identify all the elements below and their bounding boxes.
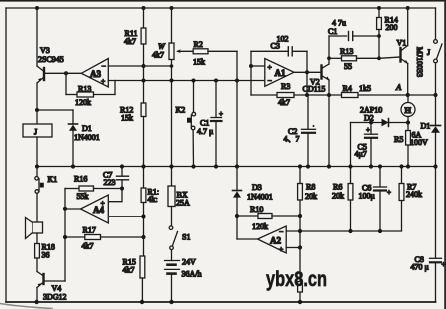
wire A3 output to node xyxy=(66,72,81,74)
node D2 / C5 junction xyxy=(369,121,373,125)
svg-text:20k: 20k xyxy=(332,192,344,201)
resistor R15 4k7 xyxy=(123,256,145,302)
node A line right end xyxy=(433,93,437,97)
node A3 minus / W column xyxy=(170,64,174,68)
diode D2 2AP10 xyxy=(351,106,409,127)
svg-text:V3: V3 xyxy=(40,46,50,55)
wire C7 junction down to A4 plus input xyxy=(108,189,122,202)
node top rail junctions xyxy=(35,6,410,10)
resistor R18 36 xyxy=(35,243,55,272)
node A1 output / feedback xyxy=(305,70,309,74)
svg-text:D1: D1 xyxy=(421,122,431,131)
resistor R5 xyxy=(394,123,410,167)
op-amp A2 xyxy=(258,226,287,254)
resistor R2 15k xyxy=(193,40,237,81)
wire V3 collector drop xyxy=(36,8,38,66)
resistor R7 240k xyxy=(399,167,422,201)
svg-text:15k: 15k xyxy=(193,58,205,67)
node A4 output xyxy=(63,207,67,211)
node H / D2 junction xyxy=(406,120,410,124)
node R6 bottom xyxy=(348,229,352,233)
node A1 plus junction xyxy=(249,64,253,68)
svg-text:C3: C3 xyxy=(271,42,280,51)
node base of V3 / A3 output xyxy=(64,71,68,75)
node R17 right xyxy=(141,235,145,239)
svg-text:A3: A3 xyxy=(90,69,101,79)
svg-text:K1: K1 xyxy=(48,175,58,184)
diode D1 6A 100V xyxy=(410,122,441,258)
svg-text:D3: D3 xyxy=(252,183,262,192)
resistor R1 4k (vertical, above R15) xyxy=(141,167,159,257)
resistor R3 4k7 xyxy=(251,82,342,107)
resistor R9 (under watermark) xyxy=(298,282,303,293)
svg-text:+: + xyxy=(387,189,391,197)
wire V2 emitter column xyxy=(328,95,330,167)
bus1 to A1: vertical feedback column x=251 xyxy=(250,51,252,95)
svg-text:4k7: 4k7 xyxy=(124,37,136,46)
resistor R13 55 xyxy=(329,47,379,71)
wire bus1 (A3 plus input rail) xyxy=(108,80,264,82)
potentiometer W 4k7 xyxy=(152,8,193,167)
relay coil J xyxy=(23,124,52,167)
node V2 collector / R13 junction xyxy=(327,56,331,60)
resistor R14 200 xyxy=(377,8,398,58)
svg-text:55: 55 xyxy=(344,62,352,71)
svg-text:+: + xyxy=(101,77,105,86)
svg-text:24V: 24V xyxy=(182,258,196,267)
svg-text:20k: 20k xyxy=(305,192,317,201)
capacitor C8 470u xyxy=(411,255,446,302)
resistor R4 1k5 xyxy=(342,84,436,98)
node V2 emitter junction xyxy=(327,93,331,97)
svg-text:4k7: 4k7 xyxy=(123,266,135,275)
wire A2 output lead xyxy=(237,238,258,240)
svg-text:−: − xyxy=(102,62,106,71)
node V3 emitter / D1 branch xyxy=(35,108,39,112)
svg-text:J: J xyxy=(34,128,37,137)
wire top rail xyxy=(6,7,436,9)
wire V3 emitter drop xyxy=(36,83,38,124)
wire bus2 (middle rail) xyxy=(37,166,436,168)
node R10 right on R8 column xyxy=(298,214,302,218)
svg-text:+: + xyxy=(366,126,370,134)
resistor R6 20k xyxy=(332,167,353,232)
svg-text:R16: R16 xyxy=(74,175,87,184)
resistor R13 120k xyxy=(66,81,115,108)
node R14 / C1 junction xyxy=(377,34,381,38)
svg-text:R4: R4 xyxy=(343,84,352,93)
svg-text:−: − xyxy=(279,227,283,236)
svg-text:A: A xyxy=(395,82,402,92)
svg-text:R6: R6 xyxy=(333,183,342,192)
svg-text:25A: 25A xyxy=(176,199,190,208)
svg-text:+: + xyxy=(268,63,272,72)
wire A1 output to V2 base xyxy=(294,71,322,73)
svg-text:1N4001: 1N4001 xyxy=(247,193,273,202)
resistor R17 4k7 xyxy=(65,226,144,251)
svg-text:+: + xyxy=(279,245,283,254)
wire A2 minus line to R7 column xyxy=(286,201,401,232)
resistor R11 4k7 xyxy=(124,8,146,81)
switch K2 xyxy=(176,81,196,167)
wire left rail xyxy=(5,8,7,302)
node A2 minus crossing xyxy=(298,229,302,233)
svg-text:H: H xyxy=(405,105,412,115)
svg-text:−: − xyxy=(268,76,272,85)
op-amp A4 xyxy=(81,195,109,223)
node R17 left xyxy=(63,235,67,239)
node R14 / R13 / V1 base junction xyxy=(377,56,381,60)
capacitor C1 4.7u (top) xyxy=(328,19,379,41)
svg-text:120k: 120k xyxy=(252,222,268,231)
svg-text:R13: R13 xyxy=(78,85,91,94)
capacitor C3 102 xyxy=(251,35,307,96)
switch K1 xyxy=(35,167,57,223)
svg-text:+: + xyxy=(101,199,105,208)
wire A4 output to column xyxy=(65,208,81,210)
svg-text:R13: R13 xyxy=(340,47,353,56)
svg-text:R17: R17 xyxy=(83,226,96,235)
svg-text:4k7: 4k7 xyxy=(152,51,164,60)
svg-text:55k: 55k xyxy=(77,192,89,201)
node R3/C2 junction xyxy=(305,93,309,97)
svg-text:CD115: CD115 xyxy=(303,85,326,94)
svg-text:4k7: 4k7 xyxy=(278,98,290,107)
svg-text:36A/h: 36A/h xyxy=(182,270,202,279)
svg-text:100V: 100V xyxy=(410,138,428,147)
svg-text:D1: D1 xyxy=(82,124,92,133)
svg-text:J: J xyxy=(427,48,430,57)
svg-text:1k5: 1k5 xyxy=(359,84,371,93)
svg-text:+: + xyxy=(219,110,223,118)
switch J (relay contact) xyxy=(427,8,442,125)
transistor V4 3DG12 xyxy=(37,272,67,303)
wire feedback drop xyxy=(65,73,67,94)
svg-text:240k: 240k xyxy=(406,190,422,199)
svg-text:R2: R2 xyxy=(194,40,203,49)
svg-text:15k: 15k xyxy=(121,114,133,123)
node D3 / R10 xyxy=(235,214,239,218)
svg-text:R8: R8 xyxy=(306,183,315,192)
capacitor C5 4u7 xyxy=(355,123,378,167)
svg-text:4.7 μ: 4.7 μ xyxy=(197,127,213,136)
wire A1 plus lead xyxy=(251,65,265,67)
svg-text:C1: C1 xyxy=(328,27,337,36)
node V4 emitter ground xyxy=(34,300,38,304)
capacitor C6 100u xyxy=(359,167,392,232)
wire to D1 xyxy=(37,109,73,111)
node A2 plus on R8 column xyxy=(298,245,302,249)
capacitor C1 4.7u xyxy=(197,81,223,167)
svg-text:4μ7: 4μ7 xyxy=(355,150,367,159)
wire A4 feedback column xyxy=(64,189,66,282)
svg-text:3DG12: 3DG12 xyxy=(43,293,67,302)
wire D2 anode down to bus2 xyxy=(350,123,352,167)
transistor V3 xyxy=(37,46,66,83)
battery 24V 36A/h xyxy=(165,250,202,302)
svg-text:R5: R5 xyxy=(394,135,403,144)
resistor R8 20k xyxy=(298,167,317,303)
op-amp A1 xyxy=(265,59,294,87)
switch S1 xyxy=(169,207,190,250)
frame right edge artifact xyxy=(444,0,446,309)
node C6 bottom xyxy=(378,229,382,233)
svg-text:36: 36 xyxy=(42,251,50,260)
svg-text:K2: K2 xyxy=(176,106,186,115)
svg-text:+: + xyxy=(442,261,446,269)
meter H xyxy=(401,95,415,123)
node bus2 junctions xyxy=(35,164,438,168)
frame top edge artifact xyxy=(0,0,446,2)
wire ground rail xyxy=(6,301,436,303)
node C7 / R16 junction xyxy=(120,186,124,190)
node R8 column ground xyxy=(298,300,302,304)
speaker xyxy=(26,218,43,244)
transistor V1 MJ10033 xyxy=(379,8,424,95)
svg-text:200: 200 xyxy=(386,23,398,32)
svg-text:470 μ: 470 μ xyxy=(411,263,429,272)
svg-text:223: 223 xyxy=(104,178,116,187)
svg-text:1N4001: 1N4001 xyxy=(74,133,100,142)
node A (emitter of V1) xyxy=(406,93,410,97)
svg-text:4、7: 4、7 xyxy=(284,135,300,144)
op-amp A3 xyxy=(81,59,108,88)
svg-text:ybx8.cn: ybx8.cn xyxy=(266,268,327,291)
svg-text:4k7: 4k7 xyxy=(82,242,94,251)
svg-text:2SC945: 2SC945 xyxy=(38,55,64,64)
capacitor C7 223 xyxy=(103,167,129,189)
resistor R16 55k xyxy=(65,175,122,202)
resistor R10 120k xyxy=(237,205,300,231)
svg-text:S1: S1 xyxy=(182,233,190,242)
diode D3 1N4001 xyxy=(233,183,273,239)
svg-text:V1: V1 xyxy=(397,39,407,48)
node battery ground xyxy=(169,300,173,304)
capacitor C2 4.7 xyxy=(284,95,316,167)
wire A3 minus input line xyxy=(108,65,171,67)
svg-text:R10: R10 xyxy=(250,205,263,214)
diode D1 1N4001 xyxy=(69,110,100,167)
wire A2 plus line xyxy=(286,247,300,249)
svg-text:A1: A1 xyxy=(275,68,286,78)
svg-text:4k:: 4k: xyxy=(148,195,158,204)
wire A4 minus input line (thin) xyxy=(108,216,143,218)
svg-text:100μ: 100μ xyxy=(359,192,375,201)
resistor R12 15k xyxy=(120,81,146,167)
transistor V2 CD115 xyxy=(303,36,330,95)
wire R2 column down through bus2 xyxy=(236,81,238,191)
svg-text:R3: R3 xyxy=(281,82,290,91)
fuse BX 25A xyxy=(168,167,190,208)
node R15 ground xyxy=(140,300,144,304)
bottom-left scan artifact xyxy=(0,304,52,309)
svg-text:MJ10033: MJ10033 xyxy=(415,47,424,77)
node bus1 junctions xyxy=(142,79,240,83)
svg-text:120k: 120k xyxy=(75,98,91,107)
node A4 minus on R column xyxy=(141,214,145,218)
node A3 minus / R11 xyxy=(142,64,146,68)
